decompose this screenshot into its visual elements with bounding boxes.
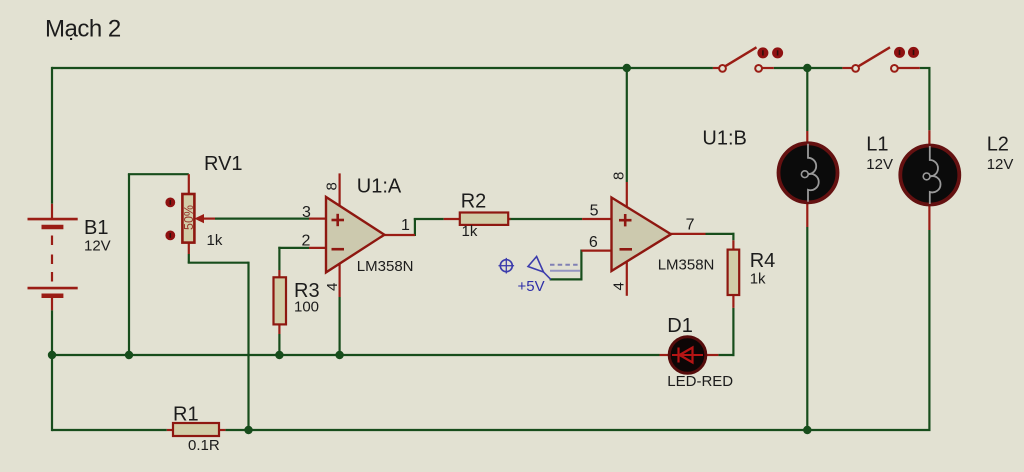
svg-text:L1: L1 [866, 133, 888, 155]
svg-text:B1: B1 [84, 217, 108, 239]
svg-text:12V: 12V [84, 238, 111, 255]
svg-text:R2: R2 [461, 191, 487, 213]
svg-text:1k: 1k [462, 223, 478, 240]
svg-text:12V: 12V [987, 156, 1014, 173]
svg-text:8: 8 [324, 182, 341, 190]
svg-text:5: 5 [590, 203, 599, 220]
svg-text:RV1: RV1 [204, 153, 243, 175]
svg-text:4: 4 [324, 283, 341, 291]
svg-text:R4: R4 [750, 250, 776, 272]
svg-text:D1: D1 [667, 315, 693, 337]
svg-text:12V: 12V [866, 156, 893, 173]
svg-text:6: 6 [589, 234, 598, 251]
svg-text:Mạch 2: Mạch 2 [45, 16, 121, 43]
svg-text:0.1R: 0.1R [188, 437, 220, 454]
svg-text:4: 4 [611, 282, 628, 290]
svg-text:1: 1 [401, 217, 410, 234]
svg-text:R1: R1 [173, 404, 199, 426]
svg-text:LED-RED: LED-RED [667, 373, 733, 390]
svg-text:3: 3 [302, 204, 311, 221]
svg-text:8: 8 [611, 172, 628, 180]
svg-text:LM358N: LM358N [658, 257, 715, 274]
svg-text:U1:B: U1:B [702, 128, 746, 150]
svg-text:7: 7 [686, 217, 695, 234]
svg-text:1k: 1k [207, 232, 223, 249]
svg-text:U1:A: U1:A [357, 176, 402, 198]
svg-text:50%: 50% [182, 205, 196, 230]
svg-text:100: 100 [294, 299, 319, 316]
svg-text:LM358N: LM358N [357, 258, 414, 275]
svg-text:+5V: +5V [518, 278, 545, 295]
svg-text:1k: 1k [750, 271, 766, 288]
svg-text:2: 2 [302, 233, 311, 250]
svg-text:L2: L2 [987, 133, 1009, 155]
